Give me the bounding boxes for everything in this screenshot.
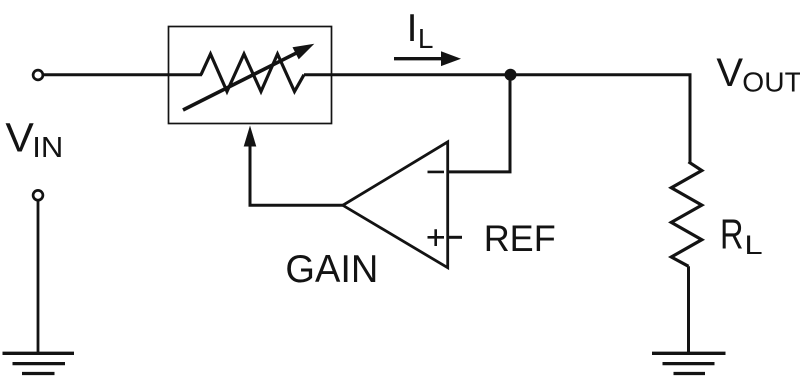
svg-text:I: I <box>407 7 418 50</box>
I_L current arrowhead <box>441 51 461 66</box>
ground (left) <box>3 353 75 373</box>
wire: R_L to ground <box>687 266 690 353</box>
wire: junction down to op-amp inverting input <box>448 77 510 172</box>
svg-text:GAIN: GAIN <box>285 248 378 291</box>
I_L current arrow shaft <box>394 57 445 60</box>
wire: input terminal to variable resistor <box>43 73 202 76</box>
wire: zigzag to top-right corner then down <box>304 75 690 163</box>
wiper diagonal arrow shaft <box>183 52 298 110</box>
input terminal circle (bottom) <box>33 190 43 200</box>
junction dot <box>505 69 517 81</box>
resistor R_L zigzag <box>671 162 702 266</box>
input terminal circle (top) <box>33 70 43 80</box>
op-amp noninverting input stub <box>448 236 462 239</box>
wire: bottom terminal to ground <box>37 200 40 353</box>
svg-text:V: V <box>5 114 34 160</box>
op-amp U1 triangle <box>343 142 448 268</box>
svg-text:REF: REF <box>484 218 556 259</box>
op-amp plus sign <box>428 229 445 246</box>
op-amp minus sign <box>428 171 445 174</box>
svg-text:R: R <box>720 210 744 257</box>
gain control arrowhead into box <box>244 126 257 147</box>
gain control wire from op-amp output <box>250 144 343 205</box>
svg-text:OUT: OUT <box>742 67 800 98</box>
wiper arrowhead <box>293 44 315 60</box>
svg-text:L: L <box>744 230 762 260</box>
variable resistor zigzag <box>201 54 304 92</box>
ground (right) <box>652 353 726 373</box>
svg-text:V: V <box>716 51 743 95</box>
box around variable resistor <box>169 27 332 124</box>
svg-text:L: L <box>418 23 434 54</box>
svg-text:IN: IN <box>32 132 63 164</box>
